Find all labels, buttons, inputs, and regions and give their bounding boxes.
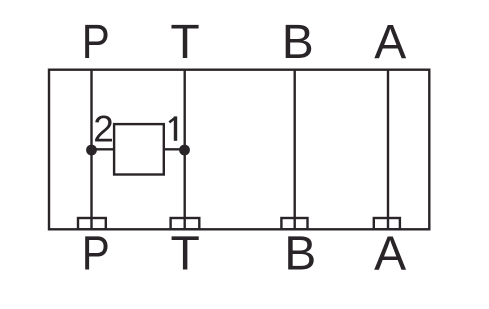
svg-text:B: B bbox=[282, 16, 314, 69]
svg-text:T: T bbox=[171, 227, 200, 280]
svg-text:P: P bbox=[82, 16, 110, 69]
svg-text:T: T bbox=[170, 16, 199, 69]
svg-text:2: 2 bbox=[93, 108, 114, 149]
svg-text:B: B bbox=[284, 227, 316, 280]
svg-text:A: A bbox=[374, 227, 406, 280]
svg-text:A: A bbox=[374, 16, 406, 69]
svg-text:P: P bbox=[82, 227, 110, 280]
